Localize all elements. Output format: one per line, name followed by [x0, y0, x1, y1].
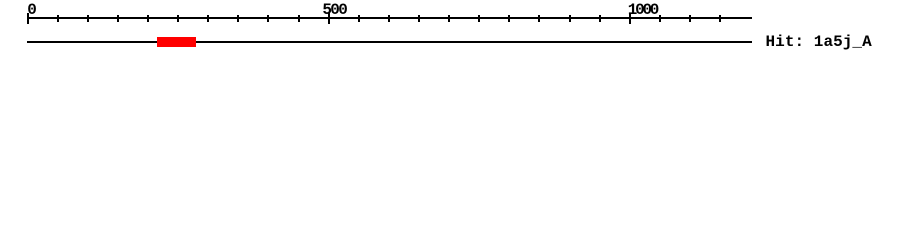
minor tick 300: [207, 15, 209, 22]
minor tick 800: [508, 15, 510, 22]
major tick 0: [27, 13, 29, 24]
svg-text:500: 500: [322, 1, 347, 19]
minor tick 1150: [719, 15, 721, 22]
minor tick 900: [569, 15, 571, 22]
minor tick 1050: [659, 15, 661, 22]
hit alignment segment (red): [157, 37, 196, 47]
minor tick 50: [57, 15, 59, 22]
minor tick 200: [147, 15, 149, 22]
minor tick 450: [298, 15, 300, 22]
query sequence line: [27, 41, 752, 43]
minor tick 250: [177, 15, 179, 22]
minor tick 750: [478, 15, 480, 22]
svg-text:0: 0: [27, 1, 37, 19]
svg-text:Hit: 1a5j_A: Hit: 1a5j_A: [766, 33, 873, 51]
minor tick 650: [418, 15, 420, 22]
ruler axis line: [27, 17, 752, 19]
minor tick 150: [117, 15, 119, 22]
minor tick 1100: [689, 15, 691, 22]
minor tick 400: [267, 15, 269, 22]
minor tick 850: [538, 15, 540, 22]
svg-text:1000: 1000: [628, 1, 660, 19]
major tick 500: [328, 13, 330, 24]
minor tick 550: [358, 15, 360, 22]
minor tick 350: [237, 15, 239, 22]
minor tick 600: [388, 15, 390, 22]
minor tick 100: [87, 15, 89, 22]
major tick 1000: [629, 13, 631, 24]
minor tick 700: [448, 15, 450, 22]
minor tick 950: [599, 15, 601, 22]
